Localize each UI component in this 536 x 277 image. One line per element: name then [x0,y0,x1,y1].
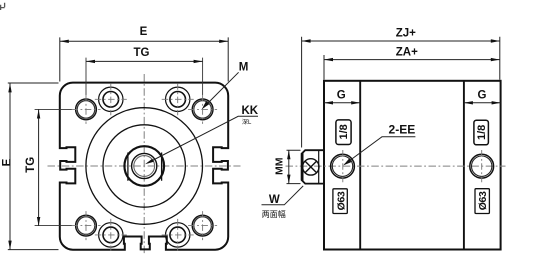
svg-text:KK: KK [242,105,259,117]
hole centerlines [72,83,218,251]
svg-text:G: G [337,89,346,101]
svg-text:1/8: 1/8 [338,124,350,139]
rod boss circle [124,146,164,186]
counterbore hole bottom-right [166,223,190,247]
svg-text:TG: TG [25,157,37,173]
body outer circle [86,108,203,225]
dimension TG vertical [37,110,40,227]
dimension TG horizontal label [134,47,150,59]
dimension G left label [337,89,346,101]
TG hole top-left [76,99,97,120]
label W [269,194,280,206]
W note [262,209,286,219]
dimension E horizontal [60,37,228,81]
port circle left [331,154,355,178]
dimension G right label [478,89,487,101]
svg-text:两面幅: 两面幅 [262,209,286,219]
svg-text:深L: 深L [242,118,252,126]
port circle right [470,154,494,178]
centerline horizontal (front view) [48,165,241,167]
side view body [324,81,501,250]
rod flat edges [303,150,319,183]
side view centerline [286,165,506,167]
front view body outline [60,83,228,250]
cropped corner glyph [0,3,5,10]
leader 2-EE [343,137,415,166]
svg-text:2-EE: 2-EE [389,123,416,137]
port size box 1/8 left [336,120,351,145]
bore size box right [475,189,489,214]
label M [239,61,249,73]
piston rod circle [132,153,157,178]
svg-text:1/8: 1/8 [476,125,488,140]
svg-text:Ø63: Ø63 [335,191,347,210]
dimension ZJ+ label [396,28,416,40]
svg-text:ZA+: ZA+ [396,47,418,59]
TG hole bottom-left [76,215,97,236]
dimension ZJ+ [302,37,500,148]
svg-text:TG: TG [134,47,150,59]
counterbore hole bottom-left [99,223,123,247]
leader KK [145,116,258,164]
rod wrench flat circle [303,159,319,175]
bore circle [103,125,185,207]
bore size box left [333,189,347,214]
dimension ZA+ [324,55,500,80]
leader W [262,186,304,205]
dimension MM label [273,157,285,175]
dimension ZA+ label [396,47,418,59]
dimension G left [324,101,360,104]
rod flats [128,153,162,181]
svg-text:G: G [478,89,487,101]
dimension G right [464,101,501,104]
counterbore hole top-left [99,87,123,111]
side view cap divider right [463,81,465,250]
TG hole bottom-right [192,215,213,236]
port size box 1/8 right [474,120,489,145]
TG hole top-right [192,99,213,120]
svg-text:E: E [140,26,148,38]
side view cap divider left [359,81,361,250]
dimension MM [287,150,301,183]
rod thread circle KK [134,156,155,177]
svg-text:ZJ+: ZJ+ [396,28,416,40]
svg-text:E: E [2,158,14,166]
svg-text:MM: MM [273,157,285,175]
svg-text:Ø63: Ø63 [477,191,489,210]
dimension E vertical label [2,158,14,166]
dimension TG horizontal [86,60,203,63]
label KK [242,105,259,117]
KK note [242,118,252,126]
svg-text:M: M [239,61,249,73]
centerline vertical (front view) [143,74,145,254]
dimension TG vertical label [25,157,37,173]
svg-text:W: W [269,194,280,206]
label 2-EE [389,123,416,137]
TG dim extension lines [35,58,203,226]
dimension E vertical [8,83,59,250]
dimension E horizontal label [140,26,148,38]
counterbore hole top-right [166,87,190,111]
port centerlines [343,150,482,182]
leader M [202,72,239,109]
piston rod side view [302,150,324,183]
